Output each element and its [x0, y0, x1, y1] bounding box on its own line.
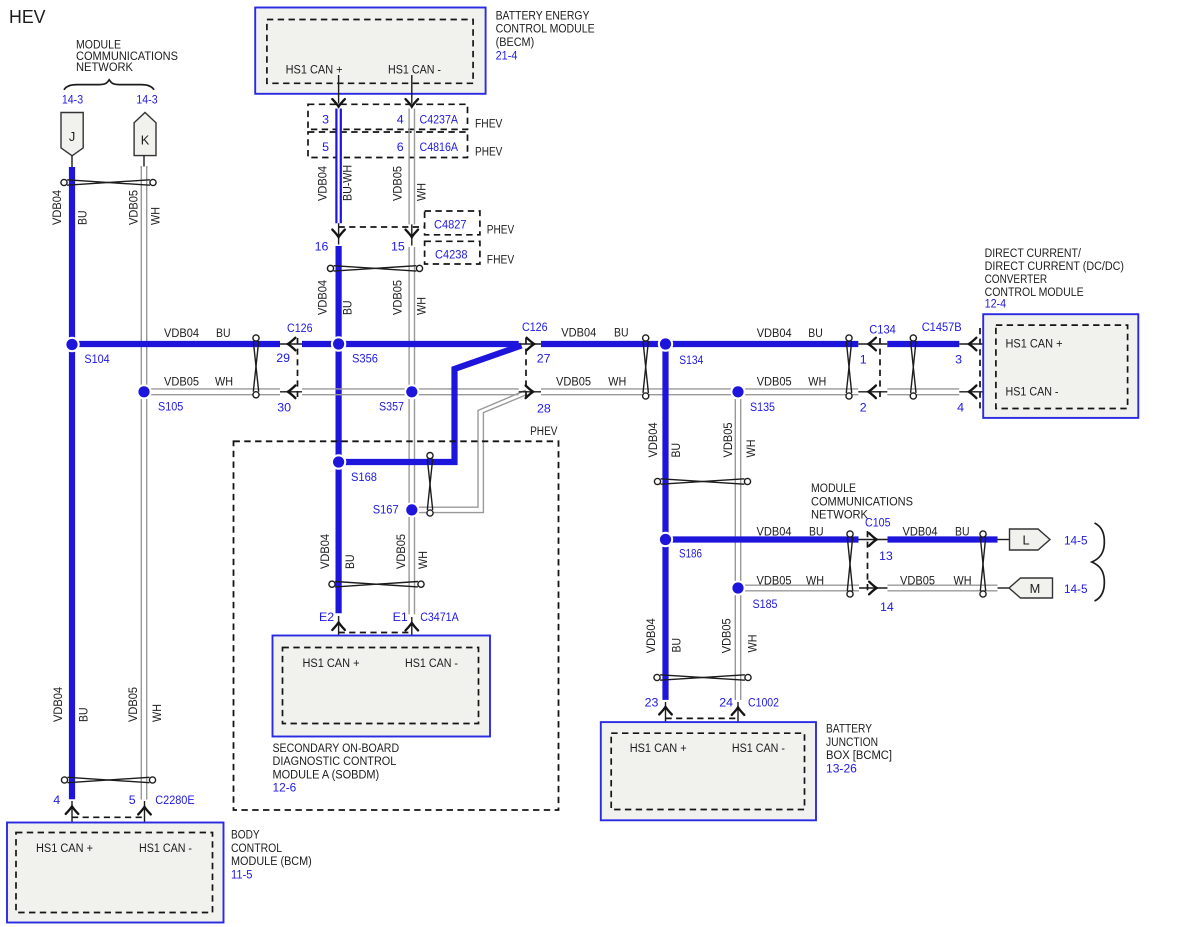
- wire label VDB05 (S105-C126): [164, 374, 199, 388]
- module name BECM: [496, 9, 595, 49]
- bus VDB04 BU segment S104 to C126: [72, 341, 280, 347]
- svg-text:C105: C105: [865, 516, 891, 530]
- svg-text:CONTROL: CONTROL: [231, 841, 282, 855]
- arrow pin 2: [868, 386, 876, 399]
- module box SOBDM: [273, 636, 491, 737]
- svg-text:HS1 CAN -: HS1 CAN -: [388, 63, 441, 77]
- svg-text:COMMUNICATIONS: COMMUNICATIONS: [811, 494, 913, 508]
- pin number 24: [719, 696, 733, 710]
- arrow pin 27: [527, 338, 535, 351]
- svg-text:HS1 CAN +: HS1 CAN +: [630, 741, 687, 755]
- splice label S356: [352, 351, 378, 365]
- twisted pair symbol (below 16/15): [327, 265, 422, 271]
- svg-text:4: 4: [53, 793, 60, 807]
- BJB pin label HS1 CAN +: [630, 741, 687, 755]
- pin number 1: [860, 353, 867, 367]
- splice S186: [658, 532, 673, 547]
- svg-text:VDB04: VDB04: [50, 190, 64, 225]
- wire VDB05 WH horizontal S185 to C105: [738, 585, 859, 591]
- svg-text:MODULE (BCM): MODULE (BCM): [231, 854, 312, 868]
- label module communications network (top left): [76, 38, 178, 75]
- off-page connector L: [1010, 529, 1051, 550]
- BECM pin label HS1 CAN -: [388, 63, 441, 77]
- svg-text:12-6: 12-6: [273, 781, 297, 795]
- DC/DC pin label HS1 CAN +: [1006, 337, 1063, 351]
- svg-text:16: 16: [315, 240, 329, 254]
- svg-text:VDB04: VDB04: [316, 166, 330, 201]
- off-page connector M: [1009, 578, 1053, 598]
- svg-text:MODULE: MODULE: [811, 481, 856, 495]
- wire label WH (BECM drop): [415, 183, 429, 201]
- page ref 12-6: [273, 781, 297, 795]
- pin 27 lead: [520, 343, 541, 345]
- wire label BU (C105-L): [955, 524, 970, 538]
- pin 14 lead: [859, 587, 888, 589]
- connector label C1002: [748, 696, 779, 710]
- wire VDB04 BU horizontal C105 to L: [888, 536, 998, 542]
- bus VDB05 WH segment C134 to C1457B: [887, 389, 959, 395]
- connector label C126 (right): [522, 320, 548, 334]
- svg-text:BU: BU: [216, 326, 231, 340]
- module box BECM: [255, 8, 485, 94]
- connector label C4237A: [420, 112, 459, 126]
- svg-text:5: 5: [129, 793, 136, 807]
- svg-text:VDB05: VDB05: [757, 374, 792, 388]
- wire label WH (left top): [149, 207, 163, 225]
- splice label S168: [351, 470, 377, 484]
- svg-text:VDB04: VDB04: [51, 687, 65, 722]
- svg-text:VDB05: VDB05: [394, 534, 408, 569]
- svg-text:WH: WH: [215, 374, 233, 388]
- off-page connector K: [134, 113, 156, 156]
- bus VDB05 WH segment S105 to C126: [144, 389, 280, 395]
- wire label WH (C126-S134): [608, 374, 626, 388]
- wire VDB05 WH horizontal C105 to M: [888, 585, 998, 591]
- arrow pin 4 (BCM): [66, 806, 79, 814]
- wire label VDB05 (left top): [127, 190, 141, 225]
- svg-text:S134: S134: [679, 353, 703, 367]
- label FHEV (C4237A): [475, 117, 503, 131]
- twisted pair symbol (above BCM): [61, 777, 155, 783]
- pin 4 lead (BCM): [71, 801, 73, 841]
- arrow pin 1: [868, 338, 876, 351]
- connector label C4238: [435, 248, 468, 262]
- wire label VDB04 (S134-C134): [757, 326, 792, 340]
- page ref 14-3 (J): [62, 93, 83, 107]
- svg-text:27: 27: [537, 351, 551, 365]
- svg-text:23: 23: [645, 696, 659, 710]
- arrow pin 5 (BCM): [138, 807, 151, 815]
- svg-text:M: M: [1030, 581, 1041, 596]
- stub wire from J: [71, 156, 73, 168]
- svg-text:VDB05: VDB05: [126, 687, 140, 722]
- DC/DC inner dashed outline: [996, 325, 1128, 408]
- connector label C126 (left): [287, 321, 313, 335]
- svg-text:BU: BU: [955, 524, 970, 538]
- svg-text:WH: WH: [744, 440, 758, 458]
- svg-text:DIRECT CURRENT (DC/DC): DIRECT CURRENT (DC/DC): [985, 259, 1124, 273]
- splice S356: [331, 336, 346, 351]
- splice S167: [404, 502, 419, 517]
- svg-text:VDB04: VDB04: [318, 534, 332, 569]
- svg-text:BU: BU: [670, 638, 684, 653]
- svg-text:C3471A: C3471A: [420, 610, 459, 624]
- wire label BU (S186-C105): [809, 524, 824, 538]
- svg-text:HS1 CAN +: HS1 CAN +: [286, 63, 343, 77]
- svg-text:CONVERTER: CONVERTER: [985, 272, 1048, 286]
- off-page connector J: [61, 113, 83, 156]
- wire label VDB05 (S185-C105): [757, 573, 792, 587]
- svg-text:DIAGNOSTIC CONTROL: DIAGNOSTIC CONTROL: [273, 754, 397, 768]
- svg-text:VDB04: VDB04: [644, 618, 658, 653]
- splice label S167: [373, 502, 399, 516]
- arrow pin E2: [332, 622, 345, 630]
- wire label VDB05 (S356 col): [391, 280, 405, 315]
- wire label VDB04 (C126-S134): [561, 326, 596, 340]
- svg-text:HS1 CAN -: HS1 CAN -: [405, 656, 458, 670]
- wire label VDB04 (S356 col): [316, 280, 330, 315]
- wire label WH (SOBDM drop): [416, 551, 430, 569]
- arrow into pin 4: [406, 99, 419, 107]
- label PHEV (C4827): [487, 223, 515, 237]
- module box BCM: [7, 823, 224, 923]
- wire label VDB05 (S135 drop): [721, 422, 735, 457]
- svg-text:S105: S105: [158, 400, 183, 414]
- page ref 14-5 (M): [1064, 582, 1088, 596]
- pin number 13: [879, 549, 893, 563]
- svg-text:HS1 CAN -: HS1 CAN -: [1006, 385, 1059, 399]
- BECM CAN- lead wire: [411, 75, 413, 104]
- pin 2 lead: [858, 391, 887, 393]
- svg-text:C4816A: C4816A: [420, 140, 459, 154]
- splice S185: [730, 580, 745, 595]
- pin number 28: [537, 401, 551, 415]
- title HEV: [9, 6, 46, 27]
- svg-text:WH: WH: [415, 183, 429, 201]
- arrow pin 28: [526, 386, 534, 399]
- pin number 14: [880, 600, 894, 614]
- svg-text:13-26: 13-26: [826, 761, 857, 775]
- svg-text:C4237A: C4237A: [420, 112, 459, 126]
- svg-text:BODY: BODY: [231, 828, 260, 842]
- twisted pair symbol (right of C105): [980, 531, 986, 597]
- wire VDB05 WH vertical (K to BCM pin 5): [141, 166, 146, 800]
- dashed link pins 16/15: [339, 226, 425, 228]
- brace right (network group): [1092, 523, 1105, 601]
- svg-text:WH: WH: [608, 374, 626, 388]
- svg-text:13: 13: [879, 549, 893, 563]
- svg-text:HS1 CAN +: HS1 CAN +: [303, 656, 360, 670]
- page ref 14-3 (K): [136, 93, 157, 107]
- svg-text:PHEV: PHEV: [475, 145, 503, 159]
- BECM CAN+ lead wire: [338, 75, 340, 104]
- svg-text:C1002: C1002: [748, 696, 779, 710]
- page ref 14-5 (L): [1064, 534, 1088, 548]
- wire label BU (S356 col): [340, 301, 354, 316]
- connector C4816A dashed box: [308, 132, 468, 158]
- wire label VDB04 (S104-C126): [164, 326, 199, 340]
- splice label S357: [379, 400, 404, 414]
- svg-text:BOX [BCMC]: BOX [BCMC]: [826, 748, 892, 762]
- connector label C1457B: [922, 320, 962, 334]
- svg-text:C2280E: C2280E: [155, 793, 194, 807]
- wire label VDB05 (left bottom): [126, 687, 140, 722]
- svg-text:15: 15: [391, 240, 405, 254]
- connector label C105: [865, 516, 891, 530]
- splice S168: [331, 454, 346, 469]
- svg-text:JUNCTION: JUNCTION: [826, 735, 878, 749]
- svg-text:VDB04: VDB04: [757, 326, 792, 340]
- svg-text:S168: S168: [351, 470, 377, 484]
- svg-text:BU: BU: [77, 708, 91, 723]
- wire label WH (S135 drop): [744, 440, 758, 458]
- pin 30 lead: [280, 391, 302, 393]
- twisted pair symbol (above C1002): [654, 674, 751, 680]
- svg-text:BU: BU: [340, 301, 354, 316]
- arrow pin 13: [869, 533, 877, 546]
- wire label VDB04 (SOBDM drop): [318, 534, 332, 569]
- pin number 16: [315, 240, 329, 254]
- connector label C2280E: [155, 793, 194, 807]
- wire VDB05 WH vertical (pin15 through S357/S167 to E1): [409, 247, 414, 614]
- svg-text:(BECM): (BECM): [496, 35, 535, 49]
- twisted pair symbol (bus left section): [253, 335, 259, 398]
- wire VDB04 BU branch S168 to C126 pin 27: [339, 346, 522, 463]
- module name SOBDM: [273, 741, 400, 781]
- svg-text:VDB04: VDB04: [561, 326, 596, 340]
- svg-text:HS1 CAN +: HS1 CAN +: [36, 841, 93, 855]
- wire label VDB05 (BJB drop): [720, 618, 734, 653]
- pin number 5 (C4816A): [322, 140, 329, 154]
- svg-text:NETWORK: NETWORK: [811, 508, 868, 522]
- arrow pin 30: [288, 386, 296, 399]
- wire label VDB05 (C126-S134): [556, 374, 591, 388]
- splice S134: [658, 336, 673, 351]
- PHEV dashed enclosure box: [234, 441, 559, 810]
- splice label S135: [750, 400, 775, 414]
- wire VDB04 BU vertical (S134 to pin 23): [662, 344, 668, 700]
- svg-text:C1457B: C1457B: [922, 320, 962, 334]
- wire VDB04 BU-WH vertical (pin3 to pin16): [335, 109, 342, 224]
- stub wire from K: [143, 156, 145, 167]
- splice label S134: [679, 353, 703, 367]
- stub wire to L: [998, 539, 1010, 541]
- wire VDB05 WH vertical (S135 to pin 24): [735, 392, 740, 700]
- pin 28 lead: [519, 391, 541, 393]
- BJB pin label HS1 CAN -: [732, 741, 785, 755]
- svg-text:PHEV: PHEV: [487, 223, 515, 237]
- svg-text:S186: S186: [679, 547, 702, 561]
- svg-text:WH: WH: [149, 207, 163, 225]
- wire VDB04 BU vertical (pin16 through S356/S168 to E2): [336, 246, 342, 613]
- svg-text:BU: BU: [809, 524, 824, 538]
- wire VDB05 WH vertical (pin4 to pin15): [409, 109, 414, 225]
- connector C126 dashed line (left): [297, 338, 299, 397]
- DC/DC pin label HS1 CAN -: [1006, 385, 1059, 399]
- arrow pin 24: [732, 707, 745, 715]
- bus VDB05 WH segment C126 to C126: [302, 389, 519, 395]
- SOBDM inner dashed outline: [283, 648, 479, 724]
- svg-text:E1: E1: [393, 610, 408, 624]
- pin number 2: [860, 401, 867, 415]
- svg-text:FHEV: FHEV: [487, 253, 515, 267]
- wire label VDB04 (C105-L): [903, 524, 938, 538]
- wire label BU (S134-C134): [808, 326, 823, 340]
- svg-text:VDB05: VDB05: [721, 422, 735, 457]
- twisted pair symbol (left of S134): [643, 335, 649, 399]
- pin number 6 (C4816A): [397, 140, 404, 154]
- svg-text:BATTERY ENERGY: BATTERY ENERGY: [496, 9, 590, 23]
- connector C1457B dashed line: [979, 328, 981, 410]
- svg-text:30: 30: [277, 401, 291, 415]
- svg-text:PHEV: PHEV: [530, 424, 558, 438]
- wire label BU (C126-S134): [614, 326, 629, 340]
- connector label C4827: [434, 218, 467, 232]
- pin number 27: [537, 351, 551, 365]
- svg-text:WH: WH: [954, 573, 972, 587]
- svg-text:BU-WH: BU-WH: [340, 165, 354, 201]
- wire label VDB04 (S186-C105): [757, 524, 792, 538]
- wire label WH (BJB drop): [746, 635, 760, 653]
- svg-text:C126: C126: [287, 321, 313, 335]
- twisted pair symbol (left of C1457B): [910, 335, 916, 399]
- pin number 4 (C1457B): [957, 401, 964, 415]
- label FHEV (C4238): [487, 253, 515, 267]
- svg-text:HEV: HEV: [9, 6, 46, 27]
- svg-text:VDB05: VDB05: [127, 190, 141, 225]
- connector label C4816A: [420, 140, 459, 154]
- BECM pin label HS1 CAN +: [286, 63, 343, 77]
- wire label VDB04 (BECM drop): [316, 166, 330, 201]
- wire label WH (S135-C134): [808, 374, 826, 388]
- svg-text:BU: BU: [808, 326, 823, 340]
- wire label WH (S356 col): [415, 297, 429, 315]
- svg-text:3: 3: [955, 353, 962, 367]
- pin number 3 (C4237A): [322, 112, 329, 126]
- pin 13 lead: [859, 539, 888, 541]
- pin 5 lead (BCM): [144, 801, 146, 841]
- svg-text:WH: WH: [416, 551, 430, 569]
- wire label WH (S185-C105): [806, 573, 824, 587]
- wire label BU (left bottom): [77, 708, 91, 723]
- svg-text:21-4: 21-4: [496, 48, 518, 62]
- svg-text:WH: WH: [806, 573, 824, 587]
- connector C126 dashed line (right): [525, 338, 527, 397]
- svg-text:VDB04: VDB04: [757, 524, 792, 538]
- svg-text:VDB05: VDB05: [556, 374, 591, 388]
- svg-text:HS1 CAN -: HS1 CAN -: [732, 741, 785, 755]
- svg-text:14-5: 14-5: [1064, 582, 1088, 596]
- svg-text:4: 4: [397, 112, 404, 126]
- twisted pair symbol (above SOBDM): [329, 581, 424, 587]
- module name DC/DC converter: [985, 246, 1124, 299]
- svg-text:S167: S167: [373, 502, 399, 516]
- svg-text:L: L: [1022, 533, 1029, 548]
- module box BJB: [601, 722, 816, 820]
- wire VDB05 WH branch S167 to C126 pin 28: [415, 390, 527, 512]
- label module communications network (right): [811, 481, 913, 522]
- dashed link pins 4/5 (BCM): [72, 816, 145, 818]
- arrow pin 23: [659, 707, 672, 715]
- page ref 13-26: [826, 761, 857, 775]
- twisted pair symbol (S134/S135 drop): [654, 478, 750, 484]
- module name BJB: [826, 722, 892, 763]
- arrow into pin 3: [332, 99, 345, 107]
- wire label WH (left bottom): [150, 704, 164, 722]
- BCM pin label HS1 CAN -: [139, 841, 192, 855]
- svg-text:HS1 CAN -: HS1 CAN -: [139, 841, 192, 855]
- svg-text:VDB04: VDB04: [646, 422, 660, 457]
- splice S105: [136, 384, 151, 399]
- svg-text:S135: S135: [750, 400, 775, 414]
- page ref 12-4: [985, 297, 1007, 311]
- arrow pin 29: [288, 338, 296, 351]
- svg-text:CONTROL MODULE: CONTROL MODULE: [496, 22, 595, 36]
- svg-text:BU: BU: [76, 211, 90, 226]
- pin 15 lead: [411, 224, 413, 245]
- BJB inner dashed outline: [611, 733, 804, 809]
- svg-text:14: 14: [880, 600, 894, 614]
- wire label BU-WH (BECM drop): [340, 165, 354, 201]
- wire label VDB04 (S134 drop): [646, 422, 660, 457]
- arrow pin 4 (C1457B): [969, 386, 977, 399]
- svg-text:VDB04: VDB04: [903, 524, 938, 538]
- bus VDB04 BU segment C126 to C126: [302, 341, 519, 347]
- svg-text:VDB05: VDB05: [900, 573, 935, 587]
- svg-text:WH: WH: [150, 704, 164, 722]
- pin 23 lead: [665, 702, 667, 741]
- svg-text:WH: WH: [808, 374, 826, 388]
- connector label C3471A: [420, 610, 459, 624]
- BCM pin label HS1 CAN +: [36, 841, 93, 855]
- pin E1 lead: [411, 617, 413, 653]
- svg-text:BU: BU: [669, 443, 683, 458]
- connector C4237A dashed box: [308, 104, 468, 129]
- dashed link pins 23/24: [666, 717, 739, 719]
- svg-text:C4238: C4238: [435, 248, 468, 262]
- connector C134 dashed line: [879, 338, 881, 397]
- svg-text:SECONDARY ON-BOARD: SECONDARY ON-BOARD: [273, 741, 400, 755]
- pin 3 lead (C1457B): [959, 343, 996, 345]
- pin number 4 (BCM): [53, 793, 60, 807]
- svg-text:12-4: 12-4: [985, 297, 1007, 311]
- splice label S186: [679, 547, 702, 561]
- wire label VDB05 (C105-M): [900, 573, 935, 587]
- svg-text:2: 2: [860, 401, 867, 415]
- splice S357: [404, 384, 419, 399]
- svg-text:FHEV: FHEV: [475, 117, 503, 131]
- svg-text:C4827: C4827: [434, 218, 467, 232]
- wire label VDB05 (BECM drop): [391, 166, 405, 201]
- svg-text:VDB04: VDB04: [164, 326, 199, 340]
- twisted pair symbol (left of C105): [847, 531, 853, 597]
- svg-text:VDB04: VDB04: [316, 280, 330, 315]
- svg-text:VDB05: VDB05: [720, 618, 734, 653]
- twisted pair symbol (S168/S167 branch): [427, 453, 433, 517]
- pin number 3 (C1457B): [955, 353, 962, 367]
- svg-text:VDB05: VDB05: [391, 166, 405, 201]
- wire label BU (BJB drop): [670, 638, 684, 653]
- svg-text:S185: S185: [753, 597, 778, 611]
- svg-text:BU: BU: [343, 555, 357, 570]
- label PHEV (C4816A): [475, 145, 503, 159]
- page ref 11-5: [231, 867, 253, 881]
- connector label C134: [869, 323, 896, 337]
- page ref 21-4: [496, 48, 518, 62]
- pin E2 lead: [338, 616, 340, 653]
- svg-text:14-5: 14-5: [1064, 534, 1088, 548]
- svg-text:11-5: 11-5: [231, 867, 253, 881]
